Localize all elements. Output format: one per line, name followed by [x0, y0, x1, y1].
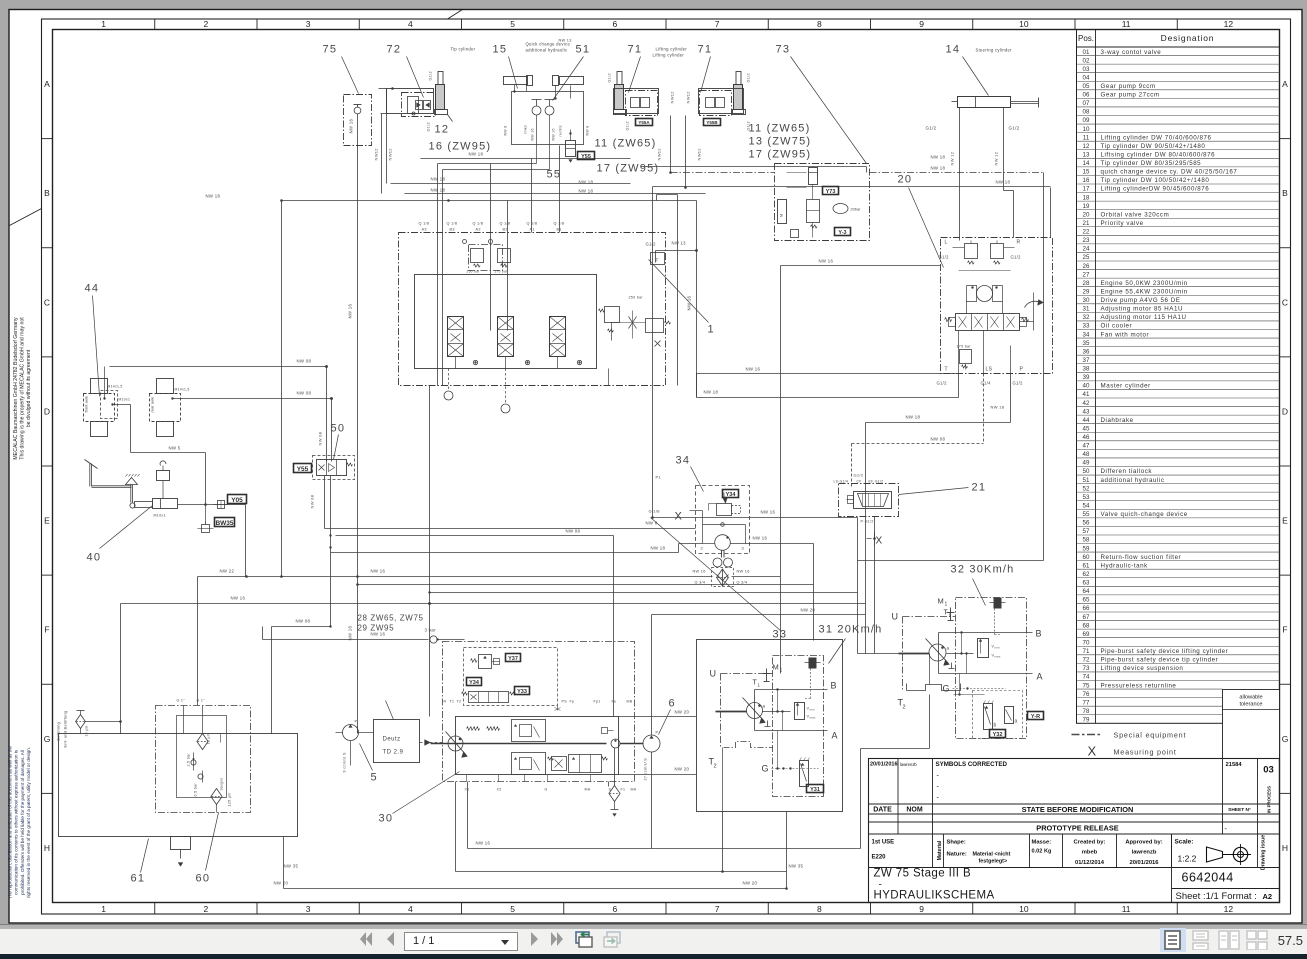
svg-text:F: F	[44, 625, 49, 635]
svg-text:1:2.2: 1:2.2	[1178, 854, 1197, 864]
svg-text:62: 62	[1083, 571, 1090, 578]
svg-text:20bar: 20bar	[851, 208, 861, 212]
svg-text:Drive pump A4VG 56 DE: Drive pump A4VG 56 DE	[1101, 297, 1181, 304]
parts table row 26	[1077, 260, 1280, 262]
two page view button	[1218, 930, 1240, 950]
wire T return block1	[697, 373, 959, 375]
svg-text:31 20Km/h: 31 20Km/h	[819, 624, 883, 636]
svg-text:NW 08: NW 08	[318, 431, 323, 445]
component 20 orbital valve	[941, 238, 1053, 374]
pump30 servo valve lower	[512, 753, 546, 775]
svg-text:32: 32	[1083, 314, 1090, 321]
wire 71 drops	[670, 116, 672, 173]
svg-text:Pos.: Pos.	[1078, 34, 1094, 43]
svg-text:Nature:: Nature:	[947, 852, 967, 858]
component 30 drive pump main block	[456, 717, 619, 775]
svg-text:This drawing is the property o: This drawing is the property of MECALAC …	[20, 317, 26, 460]
svg-text:additional hydraulic: additional hydraulic	[526, 48, 568, 53]
svg-text:A2: A2	[476, 228, 481, 232]
wire NW16 pressureless return vertical	[357, 114, 359, 734]
svg-text:Y37: Y37	[508, 656, 518, 662]
svg-text:08: 08	[1083, 109, 1090, 116]
svg-text:Oil cooler: Oil cooler	[1101, 323, 1133, 330]
filter suction diamond	[211, 789, 222, 805]
svg-text:3 bar: 3 bar	[425, 628, 437, 633]
svg-text:DATE: DATE	[873, 807, 892, 814]
wire NW18 bus to fan	[331, 552, 679, 554]
svg-text:28 ZW65, ZW75: 28 ZW65, ZW75	[358, 614, 424, 623]
svg-text:Lifting device suspension: Lifting device suspension	[1101, 665, 1184, 672]
parts table row 38	[1077, 363, 1280, 365]
svg-text:51: 51	[576, 44, 591, 56]
svg-text:G: G	[44, 734, 51, 744]
wire NW18 right bus lower	[657, 194, 678, 196]
grid row tick D	[42, 356, 53, 358]
parts table row 60	[1077, 551, 1280, 553]
svg-text:1: 1	[101, 19, 106, 29]
svg-text:50: 50	[331, 423, 346, 435]
svg-text:P-G1/2: P-G1/2	[861, 520, 874, 524]
grid row tick B	[42, 138, 53, 140]
svg-text:75: 75	[323, 44, 338, 56]
wire pump30 filter drop	[614, 748, 616, 786]
orbital spool	[956, 314, 1020, 331]
projection symbol	[1207, 847, 1223, 862]
wire vertical x780	[780, 266, 782, 674]
svg-text:74: 74	[1083, 674, 1090, 681]
svg-text:72: 72	[387, 44, 402, 56]
svg-text:71: 71	[628, 44, 643, 56]
svg-text:NW 18: NW 18	[991, 405, 1005, 410]
wire NW18 from P port	[1010, 374, 1012, 423]
svg-text:NW 20: NW 20	[274, 881, 289, 886]
previous view button	[575, 929, 597, 949]
svg-text:6: 6	[669, 698, 676, 710]
svg-text:45: 45	[1083, 425, 1090, 432]
svg-text:65: 65	[1083, 597, 1090, 604]
parts table row 62	[1077, 568, 1280, 570]
svg-text:NW 16: NW 16	[476, 841, 491, 846]
svg-text:G: G	[1282, 734, 1289, 744]
svg-text:G1/2: G1/2	[427, 122, 431, 131]
block1 main relief	[605, 307, 620, 323]
pump30 springs	[467, 727, 480, 731]
svg-text:31: 31	[1083, 306, 1090, 313]
svg-text:125 µm: 125 µm	[228, 793, 232, 807]
parts table row 18	[1077, 192, 1280, 194]
wire NW08 rear axle	[173, 398, 332, 400]
parts table row 37	[1077, 354, 1280, 356]
svg-text:23: 23	[1083, 237, 1090, 244]
svg-text:58: 58	[1083, 537, 1090, 544]
svg-text:NW 16: NW 16	[819, 259, 834, 264]
svg-text:lawrenzb: lawrenzb	[1132, 850, 1157, 856]
svg-text:13: 13	[1083, 151, 1090, 158]
parts table row 41	[1077, 388, 1280, 390]
parts table row 15	[1077, 166, 1280, 168]
zoom percentage	[1278, 933, 1303, 948]
svg-text:G: G	[943, 684, 950, 694]
svg-text:12: 12	[1083, 143, 1090, 150]
svg-text:NOM: NOM	[906, 807, 923, 814]
svg-text:11: 11	[1083, 134, 1090, 141]
svg-text:LS-G1/4: LS-G1/4	[834, 480, 849, 484]
svg-text:28: 28	[1083, 280, 1090, 287]
svg-text:54: 54	[1083, 502, 1090, 509]
svg-text:NW 16: NW 16	[531, 128, 535, 140]
svg-text:T: T	[945, 367, 948, 373]
svg-text:quich change device cy. DW 40/: quich change device cy. DW 40/25/50/167	[1101, 169, 1238, 176]
parts table row 36	[1077, 346, 1280, 348]
suction filter under pump	[609, 786, 620, 802]
motor32 lower valves	[973, 691, 1023, 739]
svg-text:H: H	[44, 843, 50, 853]
grid column tick 10	[1074, 19, 1076, 30]
pump30 center valve	[552, 757, 567, 771]
svg-text:NW 16: NW 16	[371, 569, 386, 574]
svg-text:40: 40	[1083, 383, 1090, 390]
wire bus y592	[430, 592, 858, 594]
svg-text:NW 35: NW 35	[284, 864, 299, 869]
svg-text:Gear pump 27ccm: Gear pump 27ccm	[1101, 92, 1160, 99]
grid column tick 6	[665, 19, 667, 30]
component 72 pipe-burst safety tip cylinder	[387, 89, 434, 114]
svg-text:Return-flow suction filter: Return-flow suction filter	[1101, 554, 1182, 561]
svg-text:NW 16: NW 16	[761, 510, 776, 515]
svg-text:NW 08: NW 08	[296, 619, 311, 624]
motor32 drain line	[929, 654, 931, 685]
svg-text:NW 18: NW 18	[906, 415, 921, 420]
block1 T port	[656, 250, 697, 252]
parts table row 42	[1077, 397, 1280, 399]
parts table row 55	[1077, 508, 1280, 510]
grid column tick 5	[563, 19, 565, 30]
svg-text:Y73: Y73	[826, 189, 836, 195]
engine deutz	[374, 720, 420, 763]
svg-text:1: 1	[945, 602, 948, 608]
svg-text:Lifting cylinderDW 90/45/600/8: Lifting cylinderDW 90/45/600/876	[1101, 186, 1210, 193]
svg-text:4: 4	[408, 19, 413, 29]
svg-text:R: R	[444, 700, 447, 704]
svg-text:NW12: NW12	[697, 148, 702, 161]
svg-text:NW 18: NW 18	[651, 546, 666, 551]
svg-text:P: P	[1020, 367, 1024, 373]
svg-text:Liftsing cylinder DW 80/40/600: Liftsing cylinder DW 80/40/600/876	[1101, 151, 1216, 158]
svg-text:NW 18: NW 18	[704, 390, 719, 395]
fold mark left edge	[10, 209, 42, 226]
svg-text:19: 19	[1083, 203, 1090, 210]
svg-text:Engine 50,0KW 2300U/min: Engine 50,0KW 2300U/min	[1101, 280, 1188, 287]
svg-text:Special equipment: Special equipment	[1114, 731, 1187, 740]
svg-text:59: 59	[1083, 545, 1090, 552]
svg-text:X: X	[1088, 744, 1097, 759]
svg-text:B: B	[1036, 629, 1042, 639]
svg-text:NW 18: NW 18	[579, 180, 594, 185]
parts table row 72	[1077, 654, 1280, 656]
wire NW08 to boost pump	[336, 535, 614, 537]
wire NW35 bottom	[456, 871, 787, 873]
svg-text:STATE BEFORE MODIFICATION: STATE BEFORE MODIFICATION	[1022, 805, 1134, 814]
svg-text:Lifting cylinder DW 70/40/600/: Lifting cylinder DW 70/40/600/876	[1101, 134, 1212, 141]
svg-text:ZW 75 Stage III B: ZW 75 Stage III B	[874, 868, 972, 880]
parts table row 35	[1077, 337, 1280, 339]
parts table row 03	[1077, 63, 1280, 65]
svg-text:67: 67	[1083, 614, 1090, 621]
svg-text:IN PROCESS: IN PROCESS	[1267, 786, 1272, 813]
svg-text:NW 8: NW 8	[646, 521, 658, 526]
wire x874 priority down	[874, 517, 876, 654]
svg-text:NW 16: NW 16	[349, 119, 354, 134]
svg-text:Differen tiallock: Differen tiallock	[1101, 468, 1153, 475]
parts table row 68	[1077, 620, 1280, 622]
svg-text:10: 10	[1083, 126, 1090, 133]
parts table row 32	[1077, 311, 1280, 313]
svg-text:05: 05	[1083, 83, 1090, 90]
svg-text:X2: X2	[497, 788, 502, 792]
svg-text:24: 24	[1083, 246, 1090, 253]
3 bar check valve	[430, 636, 437, 643]
svg-text:5: 5	[510, 19, 515, 29]
parts table row 28	[1077, 277, 1280, 279]
svg-text:68: 68	[1083, 622, 1090, 629]
svg-text:49: 49	[1083, 460, 1090, 467]
grid row tick E	[42, 465, 53, 467]
svg-text:3-way contol valve: 3-way contol valve	[1101, 49, 1162, 56]
navigation first page button	[357, 929, 375, 949]
navigation next page button	[528, 929, 542, 949]
parts table row 09	[1077, 114, 1280, 116]
svg-text:75: 75	[1083, 682, 1090, 689]
tank breather	[76, 715, 86, 729]
component 50 differential lock valve	[317, 460, 347, 476]
svg-text:a: a	[947, 646, 950, 651]
svg-text:5: 5	[510, 904, 515, 914]
svg-text:9 ccm/U S: 9 ccm/U S	[343, 752, 347, 772]
svg-text:Q 1/8: Q 1/8	[554, 222, 565, 226]
svg-text:11: 11	[1122, 904, 1131, 914]
parts table pos column divider	[1095, 30, 1097, 724]
wire motor31 returns	[722, 812, 724, 872]
svg-text:3: 3	[306, 19, 311, 29]
svg-text:Y55A: Y55A	[638, 120, 650, 125]
component 44 front axle	[91, 379, 108, 394]
svg-text:NW12: NW12	[374, 148, 379, 161]
wire quick-change drop left	[438, 163, 537, 165]
svg-text:2,5 bar: 2,5 bar	[187, 753, 191, 767]
fold mark top edge	[448, 10, 463, 20]
wire NW20 bottom	[284, 888, 787, 890]
parts table row 52	[1077, 483, 1280, 485]
svg-text:57: 57	[1083, 528, 1090, 535]
wire pump30 S drain	[608, 782, 610, 787]
parts table row 53	[1077, 491, 1280, 493]
svg-text:NW 20: NW 20	[801, 608, 816, 613]
parts table row 56	[1077, 517, 1280, 519]
svg-text:NW 18: NW 18	[579, 189, 594, 194]
svg-text:G 1": G 1"	[177, 699, 186, 703]
parts table row 25	[1077, 251, 1280, 253]
svg-text:22: 22	[1083, 229, 1090, 236]
page number combo box	[404, 932, 518, 951]
svg-text:18 µm: 18 µm	[207, 733, 211, 745]
svg-text:mbeb: mbeb	[1082, 850, 1098, 856]
title block outline	[869, 759, 1280, 903]
svg-text:allowable: allowable	[1239, 695, 1262, 701]
navigation previous page button	[383, 929, 397, 949]
svg-text:NW 8: NW 8	[504, 126, 508, 136]
svg-text:A2: A2	[1263, 892, 1273, 901]
parts table row 27	[1077, 269, 1280, 271]
svg-text:3: 3	[306, 904, 311, 914]
svg-text:CF: CF	[857, 480, 862, 484]
orbital relief valves	[965, 244, 978, 259]
svg-text:40: 40	[87, 552, 102, 564]
svg-text:NW 18: NW 18	[206, 194, 221, 199]
wire diff lock outputs	[324, 476, 326, 529]
wire x857 to motor32	[858, 560, 1044, 562]
svg-text:P: P	[355, 720, 358, 724]
svg-text:E: E	[1282, 516, 1288, 526]
block1 pilot relief valves	[469, 245, 503, 271]
parts table row 19	[1077, 200, 1280, 202]
svg-text:02: 02	[1083, 57, 1090, 64]
pump30 internal risers	[466, 775, 468, 782]
svg-text:17 (ZW95): 17 (ZW95)	[597, 163, 660, 175]
svg-text:Fp1: Fp1	[594, 700, 601, 704]
parts table row 04	[1077, 72, 1280, 74]
svg-text:NW 20: NW 20	[675, 710, 690, 715]
wire NW5 master cylinder	[131, 452, 206, 454]
parts table row 21	[1077, 217, 1280, 219]
wire vertical x656	[656, 195, 658, 201]
svg-text:61: 61	[131, 873, 146, 885]
parts table row 59	[1077, 543, 1280, 545]
parts table row 10	[1077, 123, 1280, 125]
svg-text:01: 01	[1083, 49, 1090, 56]
orbital steering unit	[977, 286, 993, 302]
svg-text:G1/2: G1/2	[608, 73, 612, 82]
svg-text:17: 17	[1083, 186, 1090, 193]
orbital relief bottom	[960, 350, 972, 364]
motor32 solid frame	[938, 633, 940, 674]
wire vertical x1050	[1050, 188, 1052, 238]
wire return loop below block1	[653, 517, 858, 519]
svg-text:max: max	[810, 716, 816, 720]
svg-text:NW 13: NW 13	[559, 39, 572, 43]
svg-text:Y-R: Y-R	[1031, 714, 1040, 720]
svg-text:NW 8: NW 8	[586, 126, 590, 136]
parts table row 02	[1077, 55, 1280, 57]
svg-text:TD 2.9: TD 2.9	[383, 750, 404, 756]
svg-text:Y33: Y33	[517, 689, 527, 695]
svg-text:20: 20	[1083, 211, 1090, 218]
svg-text:01/12/2014: 01/12/2014	[1075, 860, 1105, 866]
motor32 pump circle	[929, 644, 946, 661]
svg-text:NW 18: NW 18	[931, 166, 946, 171]
svg-text:Hydraulic-tank: Hydraulic-tank	[1101, 562, 1149, 569]
svg-text:51: 51	[1083, 477, 1090, 484]
svg-text:NW 08: NW 08	[310, 494, 315, 508]
continuous view button	[1192, 930, 1210, 950]
svg-text:39: 39	[1083, 374, 1090, 381]
svg-text:EF-G1/2: EF-G1/2	[869, 480, 884, 484]
parts table row 45	[1077, 423, 1280, 425]
svg-text:0.02 Kg: 0.02 Kg	[1032, 849, 1052, 855]
component rear axle	[157, 379, 174, 394]
parts table row 08	[1077, 106, 1280, 108]
svg-text:79: 79	[1083, 717, 1090, 724]
wire NW12 tip cylinder drops	[381, 114, 383, 194]
svg-text:Deutz: Deutz	[383, 737, 401, 743]
parts table row 74	[1077, 671, 1280, 673]
svg-text:03: 03	[1083, 66, 1090, 73]
svg-text:NW 16: NW 16	[231, 596, 246, 601]
parts table row 78	[1077, 705, 1223, 707]
svg-text:T2: T2	[457, 700, 462, 704]
svg-text:Master cylinder: Master cylinder	[1101, 383, 1151, 390]
svg-text:07: 07	[1083, 100, 1090, 107]
svg-text:50: 50	[1083, 468, 1090, 475]
parts table row 22	[1077, 226, 1280, 228]
wire NW16 tank line	[121, 603, 866, 605]
svg-text:12: 12	[1224, 19, 1234, 29]
svg-text:NW 12: NW 12	[994, 151, 999, 165]
gear pump 5	[343, 725, 359, 741]
wire NW08 front axle	[110, 366, 327, 368]
svg-text:Material <nicht: Material <nicht	[973, 852, 1011, 858]
master cylinder body	[130, 503, 135, 508]
svg-text:Fan with motor: Fan with motor	[1101, 331, 1150, 338]
svg-text:1st USE: 1st USE	[872, 840, 895, 846]
filter main diamond	[197, 734, 208, 750]
wire NW18 top bus	[391, 183, 631, 185]
pump30 circle	[448, 736, 463, 751]
svg-text:76: 76	[1083, 691, 1090, 698]
svg-text:Drawing issue: Drawing issue	[1261, 835, 1267, 870]
svg-text:2: 2	[714, 764, 717, 770]
svg-text:34: 34	[676, 455, 691, 467]
allowable tolerance box	[1223, 690, 1280, 759]
svg-text:Y34: Y34	[469, 680, 480, 686]
svg-text:lawrenzb: lawrenzb	[900, 762, 917, 767]
svg-text:G1/2: G1/2	[926, 126, 937, 131]
svg-text:G1/2: G1/2	[1011, 255, 1022, 260]
component 71 pipe-burst lifting cylinder right	[734, 85, 743, 110]
svg-text:27 ccm/U S: 27 ccm/U S	[644, 758, 648, 781]
svg-text:M: M	[779, 214, 784, 217]
svg-text:H: H	[1282, 843, 1288, 853]
svg-text:48: 48	[1083, 451, 1090, 458]
grid column tick 3	[358, 19, 360, 30]
svg-text:5: 5	[371, 772, 378, 784]
parts table row 34	[1077, 329, 1280, 331]
svg-text:Shape:: Shape:	[947, 840, 966, 846]
svg-text:4: 4	[408, 904, 413, 914]
svg-text:M10x1: M10x1	[119, 398, 131, 402]
svg-text:60: 60	[196, 873, 211, 885]
orbital rotation arrow	[1025, 301, 1041, 307]
svg-text:17 (ZW95): 17 (ZW95)	[749, 149, 812, 161]
tank outlet	[171, 837, 191, 850]
svg-text:73: 73	[1083, 665, 1090, 672]
svg-text:03: 03	[1263, 765, 1274, 776]
svg-text:61: 61	[1083, 562, 1090, 569]
viewer toolbar	[0, 924, 1307, 956]
svg-text:NW12: NW12	[686, 91, 691, 104]
svg-text:66: 66	[1083, 605, 1090, 612]
wire quick-change drop right	[443, 169, 550, 171]
svg-text:G 1/8: G 1/8	[649, 509, 661, 514]
